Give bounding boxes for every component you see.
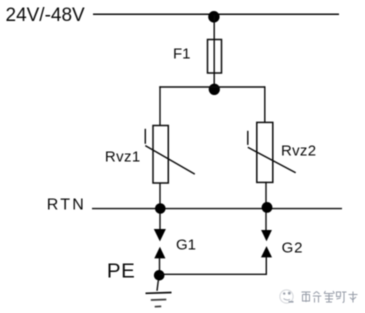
arrester G1 lower arrow	[154, 247, 165, 259]
varistor Rvz2 body	[257, 122, 273, 182]
wire branch horizontal	[159, 86, 265, 88]
wire left branch stub	[159, 86, 161, 126]
wire ground stem	[157, 280, 158, 290]
varistor Rvz1 diagonal	[145, 146, 195, 175]
junction dot below fuse	[209, 84, 220, 95]
watermark text 'hardware notebook' glyphs	[302, 291, 358, 303]
arrester G2 upper arrow	[261, 230, 272, 241]
junction dot top rail	[208, 11, 219, 23]
svg-text:24V/-48V: 24V/-48V	[6, 5, 86, 26]
ground bar 2	[151, 299, 167, 302]
svg-text:Rvz1: Rvz1	[105, 149, 141, 166]
fuse F1	[208, 40, 222, 74]
wire G1 to PE node	[159, 258, 161, 276]
arrester G2 lower arrow	[261, 246, 272, 257]
ground bar 3	[155, 305, 162, 307]
svg-text:PE: PE	[107, 260, 135, 283]
watermark logo	[280, 290, 294, 303]
varistor Rvz2 tick	[247, 131, 249, 145]
wire PE horizontal	[159, 257, 266, 274]
junction dot PE node	[154, 270, 165, 281]
wire RTN rail	[92, 208, 342, 210]
varistor Rvz1 body	[153, 126, 168, 184]
svg-text:Rvz2: Rvz2	[281, 143, 316, 160]
arrester G1 upper arrow	[154, 229, 166, 241]
svg-text:RTN: RTN	[47, 197, 86, 214]
wire Rvz2 to RTN and G2	[265, 182, 267, 231]
varistor Rvz1 tick	[144, 129, 146, 144]
wire Rvz1 to RTN and G1	[159, 183, 161, 231]
wire right branch stub	[264, 86, 266, 123]
svg-text:G2: G2	[282, 239, 304, 256]
wire fuse vertical	[213, 15, 215, 87]
junction dot RTN right	[262, 202, 273, 213]
svg-text:F1: F1	[173, 46, 191, 63]
wire top rail	[93, 13, 339, 15]
varistor Rvz2 diagonal	[248, 147, 296, 173]
junction dot RTN left	[155, 203, 166, 214]
svg-text:G1: G1	[176, 236, 196, 253]
ground bar 1	[146, 292, 172, 295]
